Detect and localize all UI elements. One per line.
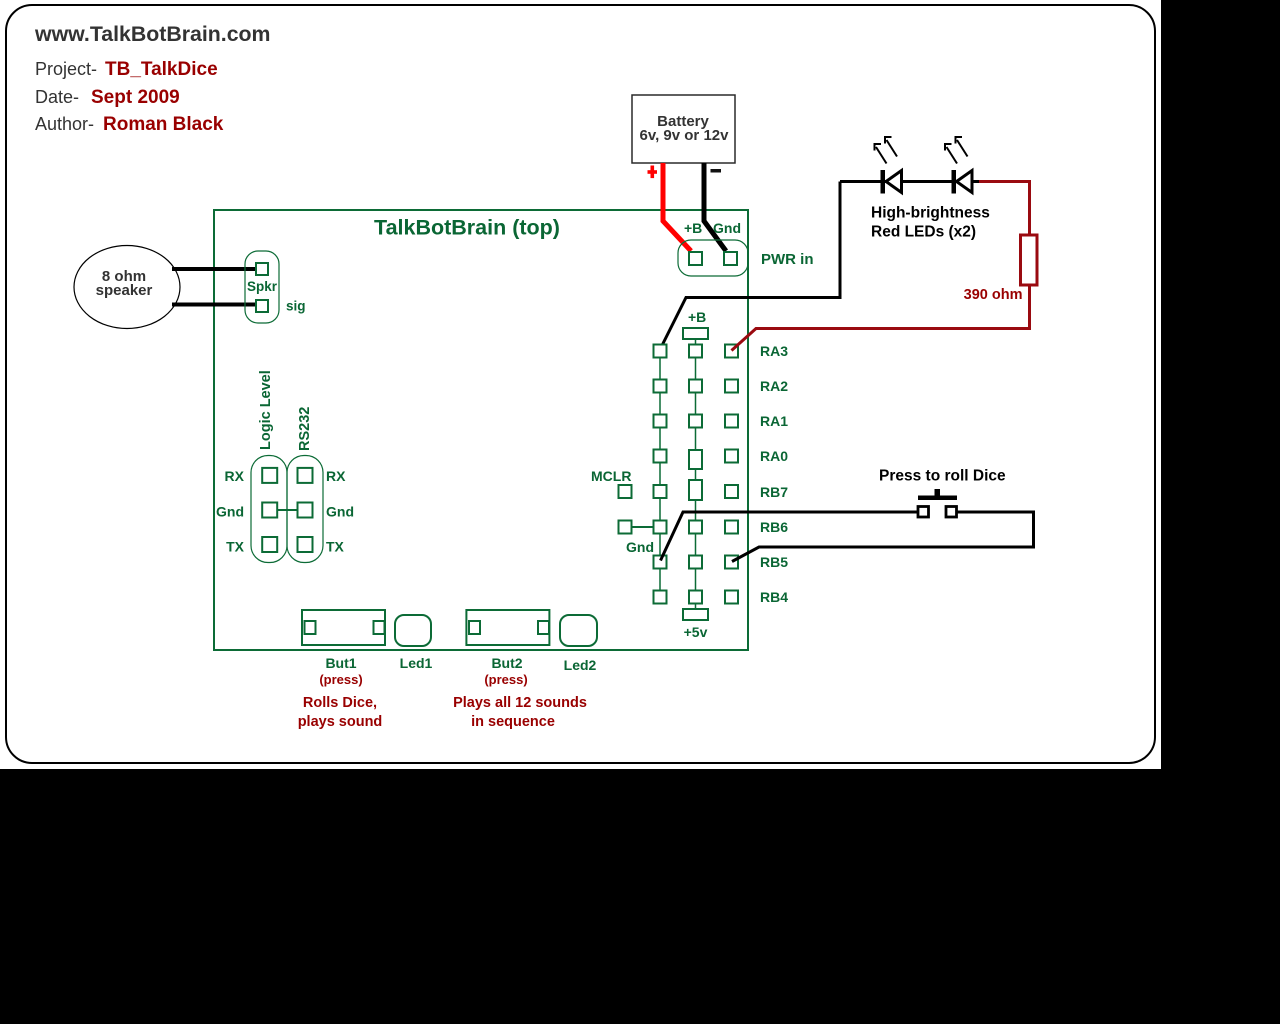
svg-text:TalkBotBrain (top): TalkBotBrain (top) — [374, 216, 560, 240]
resistor R1 390 ohm — [1021, 235, 1038, 285]
switch SW1 press to roll dice — [918, 489, 957, 517]
svg-text:(press): (press) — [484, 672, 527, 687]
svg-text:RA3: RA3 — [760, 343, 788, 359]
svg-text:Rolls Dice,: Rolls Dice, — [303, 695, 377, 711]
wire LED to resistor (dark red) — [979, 182, 1030, 236]
svg-text:RB5: RB5 — [760, 554, 788, 570]
connector PWR in — [678, 240, 748, 276]
node column right (port pins) — [725, 345, 738, 604]
pin MCLR — [619, 485, 632, 498]
button But1 — [302, 610, 385, 645]
connector Spkr — [245, 251, 279, 323]
svg-text:High-brightness: High-brightness — [871, 205, 990, 222]
svg-text:RA1: RA1 — [760, 413, 788, 429]
svg-text:www.TalkBotBrain.com: www.TalkBotBrain.com — [34, 22, 270, 46]
button But2 — [466, 610, 549, 645]
svg-text:TX: TX — [226, 539, 245, 555]
wire battery plus (red) — [663, 163, 691, 251]
LED Led2 — [560, 615, 597, 646]
svg-text:Gnd: Gnd — [326, 504, 354, 520]
svg-text:Red LEDs (x2): Red LEDs (x2) — [871, 224, 976, 241]
svg-text:Roman Black: Roman Black — [103, 114, 224, 135]
page border frame — [6, 5, 1155, 763]
wire LED chain — [840, 180, 979, 183]
svg-text:Sept 2009: Sept 2009 — [91, 87, 180, 108]
svg-text:Gnd: Gnd — [216, 504, 244, 520]
svg-text:Logic Level: Logic Level — [258, 370, 274, 450]
wire gnd jumper between connectors — [277, 509, 297, 511]
svg-text:But2: But2 — [491, 655, 522, 671]
rail +5v pad — [683, 609, 708, 620]
svg-text:in sequence: in sequence — [471, 714, 555, 730]
svg-text:TB_TalkDice: TB_TalkDice — [105, 59, 218, 80]
wire speaker top — [172, 267, 257, 271]
rail +B pad — [683, 328, 708, 339]
svg-text:+B: +B — [684, 220, 702, 236]
LED D2 emission arrows — [944, 136, 968, 164]
svg-text:390 ohm: 390 ohm — [964, 287, 1023, 303]
svg-text:Spkr: Spkr — [247, 279, 278, 294]
svg-text:RX: RX — [326, 468, 346, 484]
svg-text:(press): (press) — [319, 672, 362, 687]
wire speaker bottom — [172, 303, 257, 307]
svg-text:Gnd: Gnd — [626, 539, 654, 555]
svg-text:Project-: Project- — [35, 59, 97, 79]
svg-text:Plays all 12 sounds: Plays all 12 sounds — [453, 695, 587, 711]
node column left (header pins) — [654, 345, 667, 604]
svg-text:plays sound: plays sound — [298, 714, 383, 730]
svg-text:RA0: RA0 — [760, 448, 788, 464]
svg-text:6v, 9v or 12v: 6v, 9v or 12v — [640, 127, 730, 144]
svg-text:Press to roll Dice: Press to roll Dice — [879, 468, 1006, 485]
wire LED feed (gnd pin to LEDs) — [660, 182, 840, 350]
svg-text:Gnd: Gnd — [713, 220, 741, 236]
svg-text:Led1: Led1 — [400, 655, 433, 671]
speaker LS1 (8 ohm) — [74, 246, 180, 329]
svg-text:RX: RX — [225, 468, 245, 484]
connector Logic Level — [251, 456, 287, 563]
pin Gnd — [619, 521, 632, 534]
svg-text:RB6: RB6 — [760, 519, 788, 535]
wire button net A (left pin RB5 row to switch) — [661, 512, 919, 561]
svg-text:Date-: Date- — [35, 87, 79, 107]
battery B1 — [632, 95, 735, 163]
svg-text:PWR in: PWR in — [761, 251, 814, 268]
LED D2 — [952, 170, 973, 194]
svg-text:TX: TX — [326, 539, 345, 555]
wire button net B (switch to RB5) — [732, 512, 1034, 562]
svg-text:MCLR: MCLR — [591, 468, 631, 484]
svg-text:+5v: +5v — [684, 624, 708, 640]
svg-text:RA2: RA2 — [760, 378, 788, 394]
svg-text:sig: sig — [286, 299, 306, 314]
svg-text:RB4: RB4 — [760, 589, 788, 605]
wire resistor to RA3 (dark red) — [732, 285, 1030, 351]
LED D1 — [881, 170, 902, 194]
svg-text:+B: +B — [688, 309, 706, 325]
label + plus — [648, 166, 658, 179]
svg-text:Author-: Author- — [35, 114, 94, 134]
node column middle (+5v rail pins) — [689, 339, 702, 609]
svg-text:speaker: speaker — [96, 282, 153, 299]
wire battery minus (black) — [704, 163, 726, 251]
LED Led1 — [395, 615, 431, 646]
svg-text:Led2: Led2 — [564, 657, 597, 673]
LED D1 emission arrows — [874, 136, 898, 164]
svg-text:RB7: RB7 — [760, 484, 788, 500]
connector RS232 — [287, 456, 323, 563]
label - minus — [711, 169, 722, 173]
svg-text:But1: But1 — [325, 655, 356, 671]
svg-text:RS232: RS232 — [297, 407, 313, 451]
board TalkBotBrain outline — [214, 210, 748, 650]
wire gnd pin link — [632, 526, 654, 528]
